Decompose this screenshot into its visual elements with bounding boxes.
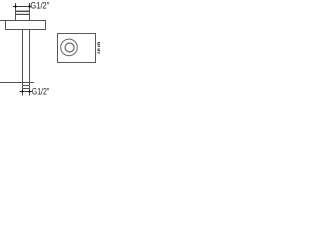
bottom head line [0,82,34,84]
thread stub left extension line [15,3,17,21]
bottom stub left extension line [22,83,24,96]
bottom dimension arrow right [28,90,30,94]
bottom dimension arrow left [21,90,23,94]
ceiling line [0,20,46,22]
top dimension arrow left [14,5,16,9]
bottom dimension line [20,91,33,93]
stub collar bottom line [16,13,30,15]
bottom thread line 2 [23,88,30,90]
flange plate (side view) [6,21,46,30]
pipe right wall [29,30,31,83]
top dimension line [13,6,32,8]
top dimension arrow right [28,5,30,9]
cover plate (bottom view) [58,34,96,63]
pipe left wall [22,30,24,83]
outer circle [61,39,78,56]
bottom stub right extension line [29,83,31,96]
thread stub right extension line [29,3,31,21]
inner circle [65,43,74,52]
stub collar top line [16,10,30,12]
svg-text:G1/2″: G1/2″ [30,1,50,11]
bottom thread line 1 [23,85,30,87]
svg-text:5: 5 [97,49,100,56]
svg-text:G1/2″: G1/2″ [32,86,50,96]
